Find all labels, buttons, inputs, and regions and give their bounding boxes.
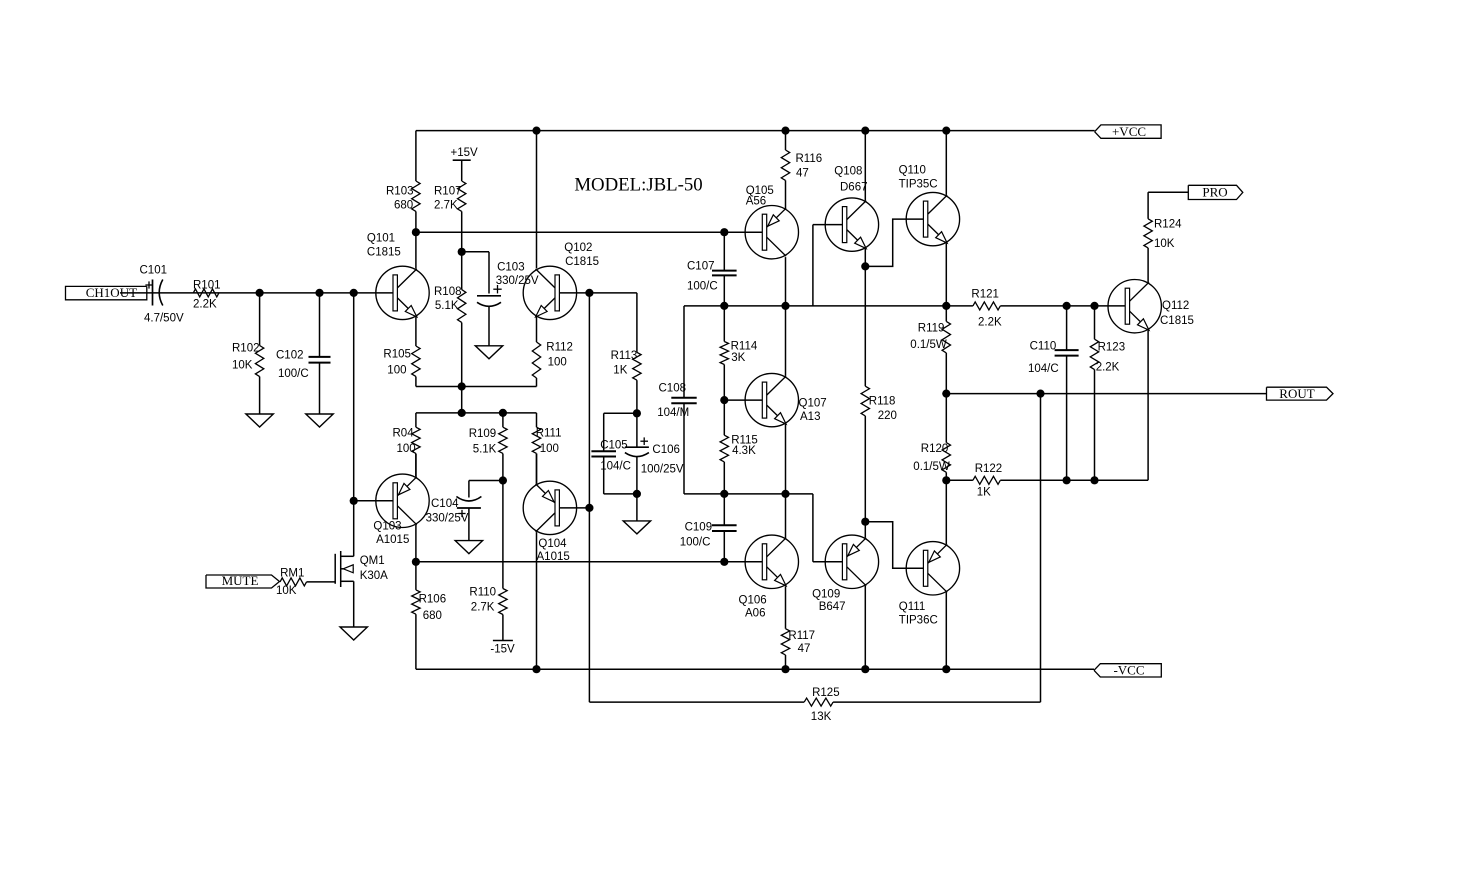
svg-text:4.7/50V: 4.7/50V — [144, 312, 184, 324]
svg-text:100/C: 100/C — [680, 537, 711, 549]
svg-text:R102: R102 — [232, 342, 260, 354]
svg-text:5.1K: 5.1K — [435, 300, 459, 312]
svg-text:C106: C106 — [652, 444, 680, 456]
svg-text:100: 100 — [397, 443, 416, 455]
svg-text:C102: C102 — [276, 349, 304, 361]
svg-text:104/C: 104/C — [1028, 363, 1059, 375]
svg-text:R105: R105 — [383, 349, 411, 361]
svg-text:R103: R103 — [386, 186, 414, 198]
svg-text:Q103: Q103 — [373, 520, 401, 532]
svg-text:R106: R106 — [419, 594, 447, 606]
svg-text:-15V: -15V — [490, 644, 515, 656]
svg-text:R119: R119 — [918, 323, 945, 335]
svg-text:R110: R110 — [469, 587, 496, 599]
svg-text:0.1/5W: 0.1/5W — [913, 461, 950, 473]
svg-text:RM1: RM1 — [280, 567, 304, 579]
svg-text:Q107: Q107 — [799, 398, 827, 410]
svg-text:Q109: Q109 — [812, 589, 840, 601]
svg-text:Q110: Q110 — [899, 164, 926, 176]
svg-text:C103: C103 — [497, 261, 524, 273]
svg-text:C109: C109 — [685, 521, 713, 533]
svg-text:10K: 10K — [1154, 238, 1175, 250]
svg-text:C110: C110 — [1030, 340, 1057, 352]
svg-text:100/C: 100/C — [687, 281, 718, 293]
svg-text:0.1/5W: 0.1/5W — [910, 339, 947, 351]
svg-text:MODEL:JBL-50: MODEL:JBL-50 — [574, 175, 702, 196]
svg-text:R107: R107 — [434, 186, 462, 198]
svg-text:Q106: Q106 — [739, 595, 767, 607]
svg-text:47: 47 — [798, 643, 811, 655]
svg-text:MUTE: MUTE — [222, 573, 259, 588]
svg-text:R04: R04 — [393, 427, 415, 439]
svg-text:Q108: Q108 — [834, 166, 862, 178]
svg-text:2.2K: 2.2K — [193, 299, 217, 311]
svg-text:2.2K: 2.2K — [1096, 362, 1120, 374]
svg-text:B647: B647 — [819, 601, 846, 613]
svg-text:2.2K: 2.2K — [978, 316, 1002, 328]
svg-text:330/25V: 330/25V — [496, 275, 539, 287]
svg-text:R109: R109 — [469, 428, 497, 440]
svg-text:2.7K: 2.7K — [471, 602, 495, 614]
svg-text:Q101: Q101 — [367, 233, 395, 245]
svg-text:13K: 13K — [811, 711, 832, 723]
svg-text:R121: R121 — [971, 288, 999, 300]
svg-text:ROUT: ROUT — [1279, 386, 1314, 401]
svg-text:220: 220 — [878, 410, 897, 422]
svg-text:C104: C104 — [431, 498, 459, 510]
svg-text:R124: R124 — [1154, 219, 1182, 231]
svg-text:PRO: PRO — [1202, 185, 1227, 200]
svg-text:R125: R125 — [812, 687, 840, 699]
svg-text:R118: R118 — [869, 396, 896, 408]
svg-text:100: 100 — [540, 443, 559, 455]
svg-text:A1015: A1015 — [376, 534, 409, 546]
svg-text:100/25V: 100/25V — [641, 463, 684, 475]
svg-text:R120: R120 — [921, 443, 949, 455]
svg-text:A56: A56 — [746, 196, 766, 208]
svg-text:A06: A06 — [745, 607, 765, 619]
svg-text:A13: A13 — [800, 411, 820, 423]
svg-text:R123: R123 — [1098, 342, 1126, 354]
svg-text:CH1OUT: CH1OUT — [86, 285, 137, 300]
svg-text:100: 100 — [548, 357, 567, 369]
svg-text:Q102: Q102 — [564, 242, 592, 254]
svg-text:R108: R108 — [434, 286, 462, 298]
svg-text:4.3K: 4.3K — [732, 445, 756, 457]
svg-text:R111: R111 — [536, 427, 562, 439]
svg-text:C1815: C1815 — [367, 246, 401, 258]
svg-text:TIP36C: TIP36C — [899, 615, 938, 627]
svg-text:R116: R116 — [796, 153, 823, 165]
svg-text:Q111: Q111 — [899, 601, 925, 613]
svg-text:1K: 1K — [613, 365, 627, 377]
svg-text:47: 47 — [796, 167, 809, 179]
svg-text:QM1: QM1 — [360, 555, 385, 567]
svg-text:C101: C101 — [140, 265, 168, 277]
svg-text:5.1K: 5.1K — [473, 444, 497, 456]
svg-text:D667: D667 — [840, 181, 868, 193]
svg-text:R112: R112 — [546, 342, 573, 354]
svg-text:R101: R101 — [193, 279, 221, 291]
svg-text:100: 100 — [387, 364, 406, 376]
svg-text:2.7K: 2.7K — [434, 200, 458, 212]
svg-text:R114: R114 — [731, 341, 758, 353]
svg-text:C107: C107 — [687, 261, 715, 273]
svg-text:R117: R117 — [788, 630, 815, 642]
svg-text:330/25V: 330/25V — [426, 513, 469, 525]
svg-text:Q112: Q112 — [1162, 300, 1189, 312]
svg-text:TIP35C: TIP35C — [899, 179, 938, 191]
svg-text:680: 680 — [423, 610, 442, 622]
svg-text:C108: C108 — [659, 382, 687, 394]
svg-text:+VCC: +VCC — [1112, 124, 1146, 139]
svg-text:A1015: A1015 — [537, 551, 570, 563]
svg-text:104/M: 104/M — [657, 407, 689, 419]
svg-text:C1815: C1815 — [1160, 315, 1194, 327]
svg-text:10K: 10K — [276, 585, 297, 597]
svg-text:1K: 1K — [977, 487, 991, 499]
svg-text:R113: R113 — [611, 350, 638, 362]
svg-text:K30A: K30A — [360, 570, 388, 582]
svg-text:3K: 3K — [731, 352, 745, 364]
svg-text:C105: C105 — [600, 439, 628, 451]
svg-text:+15V: +15V — [451, 147, 479, 159]
svg-text:-VCC: -VCC — [1113, 663, 1144, 678]
svg-text:Q104: Q104 — [538, 538, 567, 550]
svg-text:R122: R122 — [975, 463, 1003, 475]
svg-text:680: 680 — [394, 200, 413, 212]
svg-text:10K: 10K — [232, 359, 253, 371]
svg-text:104/C: 104/C — [600, 461, 631, 473]
svg-text:100/C: 100/C — [278, 368, 309, 380]
svg-text:C1815: C1815 — [565, 256, 599, 268]
